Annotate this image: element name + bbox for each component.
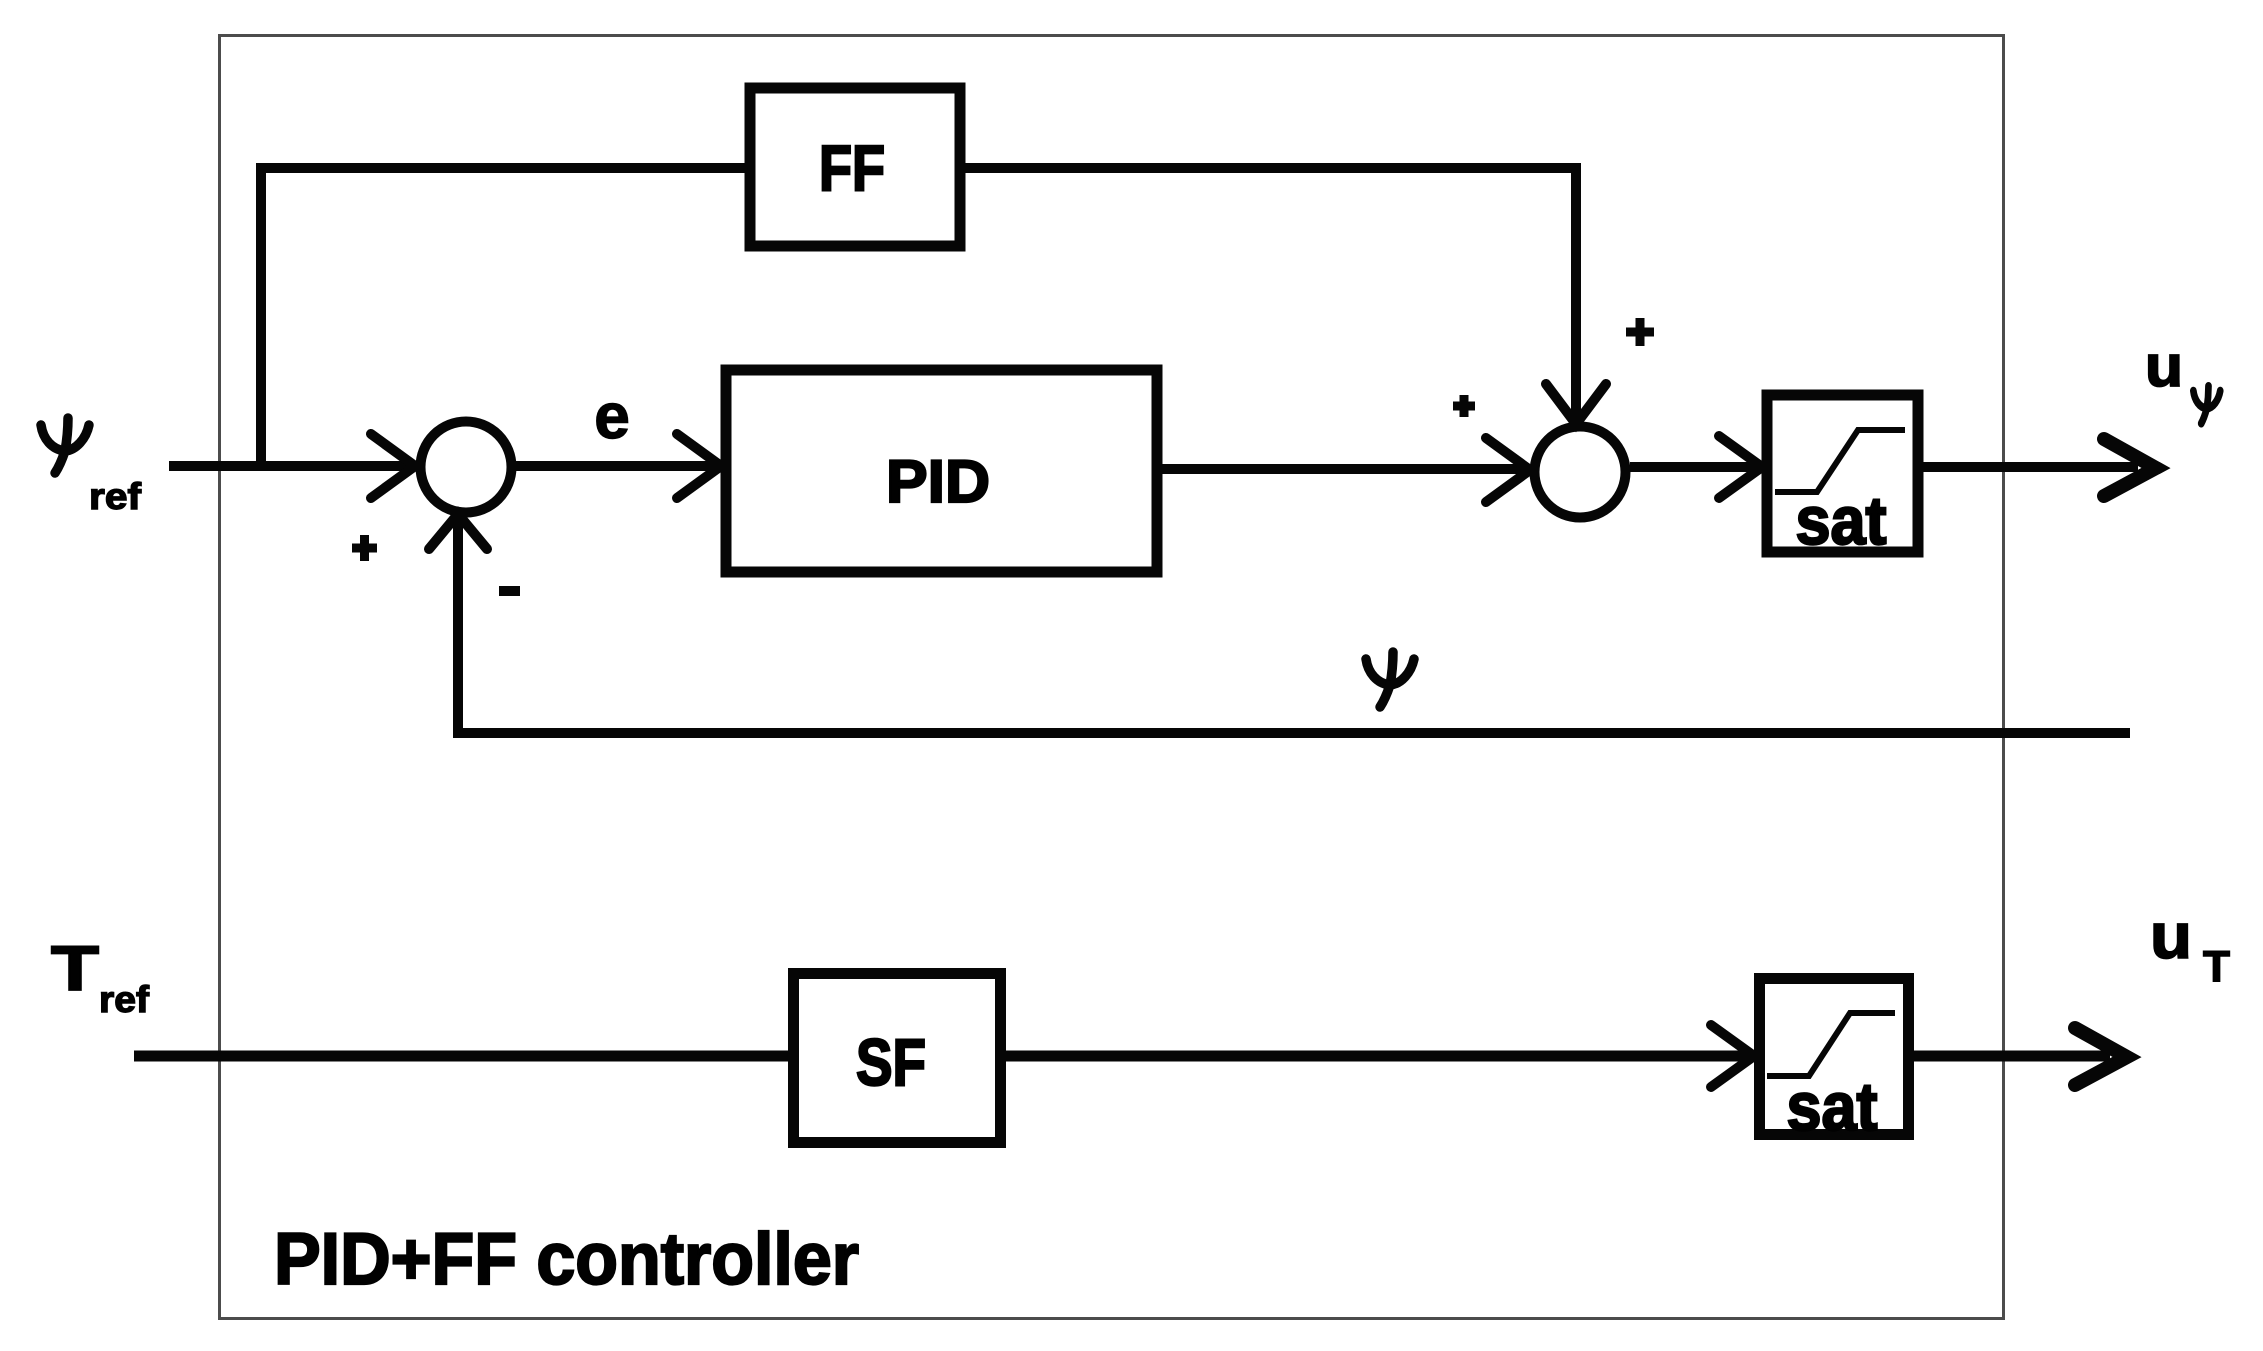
wire: psi feedback from plant to S1 (458, 516, 2130, 733)
block sat1 (saturation) (1767, 395, 1918, 552)
svg-text:PID+FF controller: PID+FF controller (274, 1219, 859, 1300)
arrowhead into PID input (677, 434, 721, 498)
wire: u_T output (1914, 1051, 2110, 1062)
wire: psi_ref input to summing junction S1 (169, 461, 414, 471)
wire: error e from S1 to PID (516, 461, 718, 471)
arrowhead into sat1 (1719, 436, 1762, 498)
wire: S2 to sat1 (1630, 462, 1760, 472)
svg-text:ref: ref (89, 476, 142, 517)
wire: PID output to S2 (1162, 464, 1528, 474)
svg-text:PID: PID (886, 448, 990, 515)
sat1 saturation curve (1775, 430, 1905, 492)
block FF (750, 88, 960, 246)
arrowhead into S1 bottom (429, 514, 487, 549)
label psi_ref (41, 418, 89, 473)
wire: u_psi output (1923, 462, 2138, 472)
block SF (794, 974, 1001, 1143)
svg-text:sat: sat (1787, 1069, 1878, 1145)
svg-text:u: u (2145, 334, 2183, 399)
arrowhead into sat2 (1711, 1025, 1754, 1087)
svg-text:e: e (594, 380, 630, 452)
wire: SF to sat2 (1006, 1051, 1752, 1062)
output arrowhead u_psi (2104, 439, 2156, 496)
output arrowhead u_T (2075, 1028, 2127, 1085)
svg-text:u: u (2150, 900, 2192, 972)
plus sign for PID input at S2 (1453, 395, 1475, 417)
svg-text:SF: SF (856, 1025, 926, 1099)
svg-text:sat: sat (1796, 483, 1887, 559)
plus sign for psi_ref input at S1 (352, 535, 377, 561)
summing junction S1 (421, 422, 512, 513)
sat2 saturation curve (1767, 1013, 1895, 1076)
arrowhead into S1 left (371, 434, 415, 498)
wire: T_ref input to SF (134, 1051, 790, 1062)
block sat2 (saturation) (1760, 979, 1909, 1135)
wire: branch from psi_ref up to FF block (261, 168, 745, 466)
svg-text:T: T (2203, 942, 2230, 991)
wire: FF output down to summing junction S2 (965, 168, 1576, 420)
arrowhead into S2 left (1486, 438, 1530, 502)
minus sign for feedback input at S1 (499, 586, 520, 596)
arrowhead into S2 top (1546, 384, 1606, 424)
outer box: PID+FF controller boundary (220, 36, 2004, 1319)
label psi on feedback wire (1366, 652, 1414, 707)
svg-text:T: T (51, 934, 99, 1004)
svg-text:FF: FF (819, 132, 885, 204)
svg-text:ref: ref (99, 979, 150, 1020)
summing junction S2 (1535, 427, 1626, 518)
block PID (726, 370, 1157, 572)
plus sign for FF input at S2 (1626, 318, 1654, 346)
